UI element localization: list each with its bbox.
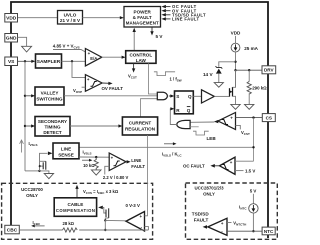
svg-text:LINE: LINE [131, 158, 141, 163]
svg-text:+: + [87, 77, 90, 82]
svg-text:21 V / 8 V: 21 V / 8 V [60, 18, 81, 23]
svg-text:14 V: 14 V [203, 72, 214, 77]
wire current source down [235, 52, 237, 87]
wire OV FAULT output [102, 82, 124, 91]
wire CBC with 28k resistor [19, 220, 148, 232]
svg-text:TIMING: TIMING [44, 125, 61, 130]
wire SAMPLER to E/A [62, 60, 86, 62]
wire comparator to CS pin [236, 116, 263, 118]
wire node to DRV pin [236, 69, 263, 71]
node junction DRV [234, 69, 236, 71]
svg-text:ONLY: ONLY [26, 193, 38, 198]
VCVS formula arrow [75, 185, 119, 198]
output FET Q1 [229, 70, 235, 104]
svg-text:CABLE: CABLE [67, 202, 83, 207]
block LINE SENSE [53, 143, 79, 159]
svg-text:LEB: LEB [207, 136, 217, 141]
zener diode 14 V [203, 66, 222, 82]
fault input TSD/SD FAULT [161, 12, 206, 17]
wire VALLEY SWITCHING to AND gate [64, 95, 158, 97]
comparator current sense (VCST) [214, 113, 236, 130]
comparator OC (1.5 V) [220, 157, 236, 174]
svg-text:UCC28700: UCC28700 [21, 187, 43, 192]
wire E/A to CONTROL LAW [102, 56, 126, 59]
IC boundary outline [11, 2, 268, 238]
wire CONTROL LAW to POWER & FAULT MANAGEMENT [133, 28, 136, 51]
block SECONDARY TIMING DETECT [35, 117, 70, 137]
cable comp FET [98, 206, 126, 232]
svg-text:FAULT: FAULT [131, 164, 145, 169]
ground symbol (zener) [214, 83, 223, 88]
svg-text:SAMPLER: SAMPLER [37, 59, 61, 65]
svg-text:LINE FAULT: LINE FAULT [172, 17, 199, 22]
ground symbol (GND pin) [22, 46, 32, 52]
ground symbol (290k) [245, 104, 254, 109]
node junction 290k [248, 69, 250, 71]
svg-text:OC FAULT: OC FAULT [183, 164, 205, 169]
svg-text:POWER: POWER [134, 9, 152, 14]
wire CS sense vertical [252, 118, 254, 162]
svg-text:+: + [221, 221, 224, 226]
block CONTROL LAW [126, 51, 156, 64]
wire latch Q to driver buffer [193, 95, 201, 97]
svg-text:& FAULT: & FAULT [133, 15, 152, 20]
wire NTC to comparator [227, 230, 262, 232]
5 V output arrow below power management [150, 28, 163, 39]
block CABLE COMPENSATION [54, 198, 96, 217]
wire GND to ground [18, 37, 27, 46]
label UCC28701/2/3 ONLY [194, 185, 224, 196]
wire amp lower input to CBC line [145, 227, 149, 230]
wire CS sense to OC comparator [235, 160, 254, 162]
svg-text:Q: Q [188, 94, 192, 99]
wire SECONDARY TIMING DETECT to CURRENT REGULATION [70, 124, 122, 127]
pin NTC [262, 227, 275, 235]
pin CS [262, 114, 275, 122]
block SAMPLER [36, 54, 62, 68]
svg-text:5 V: 5 V [250, 188, 257, 193]
ground symbol (10k) [91, 170, 101, 175]
svg-text:UCC28701/2/3: UCC28701/2/3 [194, 185, 224, 190]
svg-text:REGULATION: REGULATION [125, 126, 156, 131]
current source 25 mA [231, 36, 259, 52]
fault input OV FAULT [161, 8, 196, 13]
svg-text:VS: VS [8, 59, 15, 65]
wire VS to SAMPLER [18, 60, 36, 63]
buffer driver [202, 90, 215, 103]
block UVLO [58, 11, 83, 25]
reference 1.5 V stub [235, 168, 255, 173]
svg-text:+: + [230, 160, 233, 165]
wire buffer to output FET gate [214, 95, 229, 97]
svg-text:VALLEY: VALLEY [41, 91, 59, 96]
svg-text:+: + [140, 214, 143, 219]
AND gate U1 (set) [157, 92, 174, 100]
VCST reference stub [236, 125, 250, 135]
wire OC FAULT output [183, 164, 220, 169]
wire branch to OV comparator [72, 61, 85, 77]
svg-text:S: S [176, 94, 179, 99]
waveform 1/fsw [154, 72, 182, 83]
wire TSD/SD FAULT output [192, 211, 210, 228]
svg-text:CURRENT: CURRENT [129, 120, 152, 125]
svg-text:VDD: VDD [6, 16, 17, 22]
svg-text:COMPENSATION: COMPENSATION [56, 208, 95, 213]
op-amp E/A [85, 49, 101, 66]
block VALLEY SWITCHING [35, 87, 64, 105]
VCST output arrow below CONTROL LAW [128, 63, 137, 79]
svg-text:LAW: LAW [136, 58, 147, 63]
SR latch [175, 91, 194, 114]
pin GND [5, 34, 18, 43]
svg-text:25 mA: 25 mA [244, 46, 258, 51]
svg-text:TSD/SD: TSD/SD [192, 211, 210, 216]
ground symbol (line sense FET) [44, 174, 53, 179]
dashed box UCC28701/2/3 ONLY [186, 183, 278, 239]
label UCC28700 ONLY [21, 187, 43, 198]
svg-text:DRV: DRV [264, 68, 275, 73]
wire VDD to UVLO [18, 17, 58, 19]
node junction zener branch [234, 61, 236, 63]
wire current source to NTC pin [252, 213, 254, 232]
wire CONTROL LAW to AND gate input 1 [148, 63, 157, 94]
svg-text:NTC: NTC [264, 229, 274, 234]
wire UVLO to POWER & FAULT MANAGEMENT [83, 17, 123, 19]
svg-text:SWITCHING: SWITCHING [36, 97, 63, 102]
svg-text:CBC: CBC [7, 227, 18, 233]
svg-text:28 kΩ: 28 kΩ [63, 221, 75, 226]
wire LINE SENSE to line fault comparator [79, 149, 109, 161]
svg-text:ONLY: ONLY [203, 191, 215, 196]
pin VDD [5, 14, 18, 23]
wire reference into E/A [53, 50, 85, 53]
comparator OV with hysteresis [85, 75, 102, 92]
pin DRV [262, 66, 276, 74]
reference 2.2 V / 0.80 V [103, 166, 129, 180]
svg-text:MANAGEMENT: MANAGEMENT [126, 21, 159, 26]
pin CBC [5, 225, 19, 234]
svg-text:+: + [230, 115, 233, 120]
wire CURRENT REGULATION to AND gate input 3 [141, 99, 158, 117]
svg-text:1.5 V: 1.5 V [245, 168, 255, 173]
resistor 290 kOhm [247, 70, 267, 104]
label VOVP [73, 87, 85, 94]
reference VNTCTH stub [227, 221, 246, 227]
resistor 10 kOhm [83, 157, 98, 170]
svg-text:CONTROL: CONTROL [129, 53, 152, 58]
svg-text:E/A: E/A [90, 56, 97, 61]
current source INTC [239, 194, 258, 213]
svg-text:VDD: VDD [231, 31, 241, 36]
block POWER & FAULT MANAGEMENT [124, 7, 161, 28]
current direction arrow IVSLS [20, 140, 38, 153]
wire to zener [219, 62, 236, 67]
svg-text:OV FAULT: OV FAULT [102, 86, 124, 91]
svg-text:0 V-3 V: 0 V-3 V [126, 203, 140, 208]
svg-text:CS: CS [266, 116, 272, 121]
pin VS [5, 57, 18, 66]
svg-text:GND: GND [6, 36, 17, 42]
wire LINE FAULT output [126, 158, 145, 169]
block CURRENT REGULATION [122, 117, 157, 135]
svg-text:FAULT: FAULT [194, 218, 209, 223]
comparator TSD/SD [208, 218, 227, 235]
svg-text:10 kΩ: 10 kΩ [83, 163, 95, 168]
AND gate LEB (reset) [177, 120, 199, 128]
ground symbol (output FET) [231, 104, 240, 109]
wire IVSLS/KLC line-sense current [79, 142, 254, 157]
waveform LEB blanking pulse [193, 131, 216, 141]
wire to VALLEY SWITCHING [24, 94, 35, 97]
svg-text:SECONDARY: SECONDARY [38, 119, 67, 124]
wire AND LEB output to latch R [170, 107, 177, 124]
wire CURRENT REGULATION to cable comp amp [145, 135, 148, 216]
svg-text:UVLO: UVLO [64, 12, 77, 17]
svg-text:LINE: LINE [61, 146, 71, 151]
line sense FET cluster [25, 152, 53, 174]
fault input OC FAULT [161, 4, 196, 9]
wire VS bus vertical [24, 61, 26, 171]
svg-text:+: + [111, 156, 114, 161]
svg-text:290 kΩ: 290 kΩ [252, 86, 267, 91]
svg-text:Q: Q [187, 108, 191, 113]
svg-text:5 V: 5 V [156, 34, 164, 39]
svg-text:DETECT: DETECT [43, 130, 62, 135]
comparator LINE FAULT [109, 153, 126, 171]
fault input LINE FAULT [161, 17, 199, 22]
svg-text:2.2 V / 0.80 V: 2.2 V / 0.80 V [103, 175, 129, 180]
wire comparator output to AND gate LEB [190, 121, 214, 123]
dashed box UCC28700 ONLY [2, 183, 153, 239]
wire to SECONDARY TIMING DETECT [24, 124, 35, 127]
amplifier 0V-3V [126, 212, 145, 232]
svg-text:SENSE: SENSE [58, 152, 74, 157]
